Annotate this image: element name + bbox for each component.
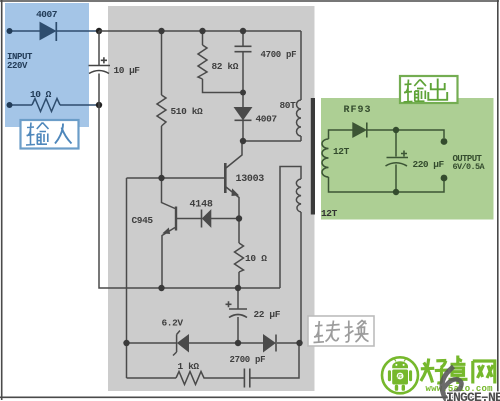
capacitor 4700pF: [235, 46, 252, 51]
diode feedback rail: [264, 335, 277, 352]
wire feedback coil bottom drop: [300, 212, 302, 343]
svg-text:6.2V: 6.2V: [162, 318, 184, 329]
svg-text:1 kΩ: 1 kΩ: [178, 361, 200, 372]
wire emitter drop: [226, 187, 239, 219]
node output bottom: [393, 189, 399, 195]
resistor 510k: [157, 95, 166, 126]
diode 4007 input: [40, 22, 56, 41]
node top rail 510k: [158, 28, 164, 34]
watermark glyph: [442, 367, 461, 401]
node base: [158, 175, 164, 181]
input region (blue): [5, 3, 89, 127]
hanzi shu(transport) for output label: [404, 80, 427, 103]
wire collector riser: [226, 141, 242, 168]
logo circle ring: [381, 356, 419, 394]
svg-text:220 µF: 220 µF: [413, 159, 445, 170]
capacitor 22uF: [226, 301, 248, 317]
wire top input line: [10, 30, 100, 32]
wire snubber diode column: [242, 93, 244, 142]
wire zener rail: [127, 342, 303, 344]
wire 4148 to emitter node: [211, 218, 239, 220]
node bottom left: [96, 102, 102, 108]
node top rail 4700pF: [240, 28, 246, 34]
diode RF93: [353, 123, 367, 138]
wire 82k column: [203, 31, 244, 93]
wire C945 base link: [177, 218, 201, 220]
wire output bottom: [329, 177, 445, 192]
svg-text:80T: 80T: [280, 100, 297, 111]
node collector junction: [240, 138, 246, 144]
diode 4148: [202, 210, 211, 228]
svg-text:INGCE.NET: INGCE.NET: [446, 390, 500, 401]
capacitor 220uF: [386, 151, 409, 167]
transistor 13003: [225, 163, 238, 196]
resistor 1k: [176, 372, 207, 385]
hanzi wang: [473, 361, 495, 384]
wire 4700pF column: [242, 31, 244, 93]
android robot: [388, 361, 412, 390]
wire input cap column: [98, 31, 100, 105]
svg-text:12T: 12T: [321, 208, 338, 219]
svg-text:10 Ω: 10 Ω: [30, 89, 52, 100]
wire emitter resistor column: [238, 219, 240, 289]
wire top rail down to primary coil: [300, 31, 302, 100]
node input top left: [7, 28, 13, 34]
svg-text:10 µF: 10 µF: [114, 65, 141, 76]
transformer core bar: [311, 98, 315, 215]
hanzi ru(enter) for input label: [55, 124, 72, 144]
wire bottom input line: [10, 104, 100, 106]
wire output cap column: [395, 130, 397, 192]
node common rail right: [235, 285, 241, 291]
wire bottom rail: [127, 343, 300, 378]
hanzi zhuan(convert) for converter label: [314, 321, 341, 343]
wire C945 emitter drop: [162, 228, 175, 289]
svg-text:4700 pF: 4700 pF: [261, 50, 297, 60]
resistor 10 ohm emitter: [235, 243, 244, 272]
node zener rail right: [296, 340, 302, 346]
feedback winding coil 12T: [296, 179, 301, 212]
output region (green): [321, 98, 494, 220]
capacitor 10uF: [89, 57, 111, 73]
node emitter junction: [236, 215, 242, 221]
wire 510k column: [161, 31, 163, 178]
node snubber junction: [240, 90, 246, 96]
wire C945 collector riser: [162, 178, 176, 209]
hanzi shu(transport) for input label: [26, 123, 49, 146]
svg-text:13003: 13003: [236, 174, 265, 185]
wire base line: [127, 177, 225, 179]
node zener rail left: [123, 340, 129, 346]
hanzi chu(out) for output label: [428, 79, 447, 101]
resistor 10 ohm input: [32, 99, 60, 112]
transistor C945: [164, 207, 177, 234]
resistor 82k: [198, 45, 207, 79]
terminal output minus: [441, 175, 448, 182]
wire regulation drop line: [126, 178, 128, 378]
logo text haozhuowang: [421, 356, 495, 385]
label box output: [400, 76, 458, 103]
hanzi zhuo: [449, 356, 468, 385]
secondary winding coil 12T: [322, 139, 329, 177]
node output top: [393, 127, 399, 133]
wire common rail: [162, 287, 281, 289]
svg-text:6V/0.5A: 6V/0.5A: [453, 162, 486, 172]
terminal output plus: [441, 138, 448, 145]
svg-text:RF93: RF93: [344, 105, 372, 116]
wire 22uF column: [237, 288, 239, 343]
node top rail 82k: [199, 28, 205, 34]
svg-text:10 Ω: 10 Ω: [245, 253, 267, 264]
zener 6.2V: [173, 331, 189, 356]
hanzi hao: [421, 359, 435, 383]
capacitor 2700pF: [244, 369, 249, 388]
svg-text:510 kΩ: 510 kΩ: [171, 106, 204, 117]
svg-text:82 kΩ: 82 kΩ: [212, 61, 239, 72]
wire feedback coil top link: [280, 167, 301, 289]
node zener rail mid: [235, 340, 241, 346]
svg-text:2700 pF: 2700 pF: [230, 355, 266, 365]
label box converter: [308, 316, 374, 346]
node common rail left: [158, 285, 164, 291]
primary winding 80T coil: [297, 100, 301, 136]
svg-text:4007: 4007: [256, 114, 278, 125]
diode 4007 snubber: [235, 108, 252, 121]
node top rail left: [96, 28, 102, 34]
wire top rail: [99, 30, 301, 32]
svg-text:4007: 4007: [36, 9, 58, 20]
label box input: [21, 120, 79, 149]
svg-text:12T: 12T: [333, 146, 350, 157]
svg-text:4148: 4148: [190, 200, 213, 211]
hanzi huan(exchange) for converter label: [345, 321, 369, 343]
svg-text:220V: 220V: [7, 61, 28, 71]
svg-text:22 µF: 22 µF: [254, 309, 281, 320]
svg-text:C945: C945: [132, 215, 154, 226]
wire snubber node to coil bottom: [243, 136, 301, 141]
node input bottom left: [7, 102, 13, 108]
wire left drop from input to common rail: [99, 105, 162, 288]
wire output top: [329, 130, 445, 139]
converter region (gray): [108, 6, 315, 391]
